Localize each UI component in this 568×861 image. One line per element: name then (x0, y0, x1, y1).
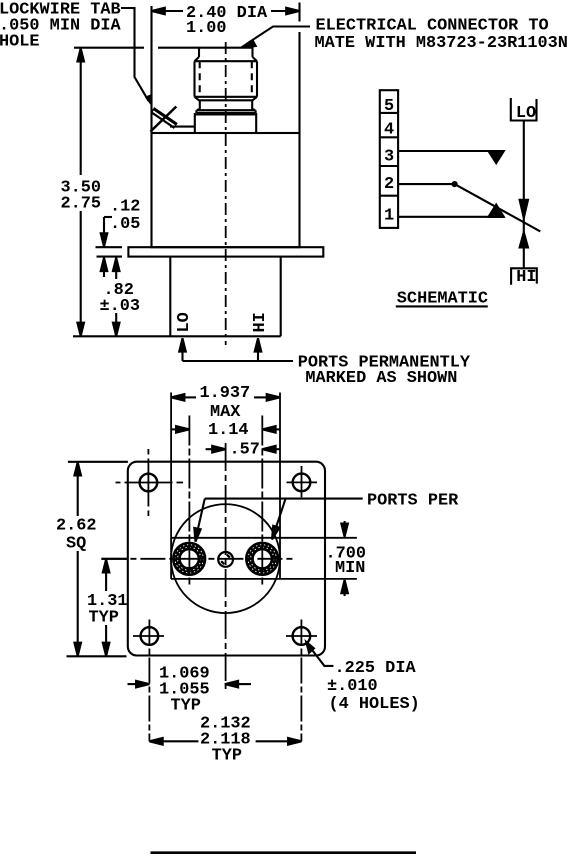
dimension .12 / .05 (flange thickness) (101, 217, 112, 277)
element arrow (down) (520, 200, 528, 218)
svg-text:±.03: ±.03 (100, 297, 141, 316)
bottom edge + extension line (73, 335, 281, 337)
svg-text:LO: LO (175, 312, 194, 332)
flange extension lines (96, 247, 123, 256)
wiper junction dot (452, 181, 458, 187)
dimension 1.069/1.055 TYP (128, 681, 252, 688)
svg-text:2: 2 (384, 175, 394, 194)
element wire LO-HI (523, 121, 525, 269)
svg-text:(4 HOLES): (4 HOLES) (329, 695, 420, 714)
svg-text:TYP: TYP (171, 696, 201, 715)
dimension .57 (port offset) (206, 446, 280, 453)
svg-text:TYP: TYP (212, 747, 242, 766)
svg-text:1: 1 (384, 207, 394, 226)
svg-text:.05: .05 (110, 215, 140, 234)
pin 3 wire (398, 150, 504, 152)
leaders: PORTS PERMANENTLY MARKED AS SHOWN (179, 338, 293, 361)
svg-text:HI: HI (251, 312, 270, 332)
pin 2 wire (398, 183, 455, 185)
svg-text:PORTS PER: PORTS PER (367, 491, 459, 510)
transducer shell circle (bottom view) (171, 504, 280, 613)
svg-text:1.14: 1.14 (208, 421, 249, 440)
svg-text:4: 4 (384, 121, 394, 140)
svg-text:±.010: ±.010 (327, 677, 378, 696)
lower port cylinder (side view) (170, 257, 280, 337)
svg-text:MATE WITH M83723-23R1103N: MATE WITH M83723-23R1103N (315, 34, 568, 53)
electrical connector profile (side view) (195, 48, 258, 133)
leader: PORTS PER (to both ports) (194, 499, 362, 542)
svg-text:HOLE: HOLE (0, 33, 40, 52)
mounting hole top-left (116, 449, 184, 516)
transducer body (side view) (152, 133, 300, 247)
svg-text:ELECTRICAL CONNECTOR TO: ELECTRICAL CONNECTOR TO (316, 17, 549, 36)
connector base (195, 113, 256, 133)
svg-text:MIN: MIN (335, 559, 365, 578)
main shell (195, 61, 258, 97)
svg-text:HI: HI (516, 268, 536, 287)
neck groove (196, 100, 255, 113)
cap (199, 48, 253, 57)
mounting flange (side view) (128, 247, 323, 256)
svg-text:.225 DIA: .225 DIA (335, 659, 417, 678)
pin 3 arrowhead (down) (489, 151, 504, 163)
svg-text:.12: .12 (110, 197, 140, 216)
port LO (bottom view, knurled) (173, 543, 206, 576)
node LO terminal bracket (511, 98, 537, 121)
dimension 1.14 (port spacing) (172, 426, 281, 433)
node HI terminal bracket (511, 268, 537, 285)
mounting hole top-right (287, 466, 318, 497)
extension lines: port centers and shell (171, 393, 280, 586)
boss flat upper edge / .700 extension (171, 537, 357, 539)
lockwire tab with X (hole mark) (151, 107, 195, 132)
horizontal centerline through ports (101, 558, 296, 560)
pin 1 wire (398, 216, 504, 218)
extension line left x=151.5 (150, 6, 152, 133)
lower chamfer (195, 97, 258, 101)
element arrow (up) (520, 232, 528, 247)
svg-text:3: 3 (384, 148, 394, 167)
svg-text:2.75: 2.75 (61, 195, 102, 214)
mounting hole bottom-left (133, 620, 164, 742)
dimension 1.31 TYP (hole offset) (101, 559, 128, 656)
svg-text:SQ: SQ (66, 534, 86, 553)
svg-text:MARKED AS SHOWN: MARKED AS SHOWN (305, 369, 457, 388)
note: ELECTRICAL CONNECTOR TO MATE WITH M83723-23R1103N (315, 17, 568, 54)
hidden thread lines (199, 61, 201, 97)
note: LOCKWIRE TAB .050 MIN DIA HOLE (0, 1, 121, 52)
centerline of connector/body (225, 42, 227, 345)
leader from LOCKWIRE TAB note to tab (121, 8, 153, 108)
dimension 1.937 MAX (shell diameter) (171, 394, 280, 401)
dimension .700 MIN (boss width) (341, 521, 348, 596)
center vent hole (218, 552, 233, 567)
dimension 2.132/2.118 TYP (149, 738, 301, 745)
dimension 2.62 SQ (flange size) (67, 462, 128, 657)
dimension 2.40 DIA / 1.00 (body diameter) (152, 8, 300, 15)
dimension .82 ± .03 (port length) (113, 258, 120, 336)
extension line at connector top (y=47.7) (74, 47, 199, 49)
svg-text:5: 5 (384, 97, 394, 116)
leader to connector cap (242, 27, 311, 48)
svg-text:TYP: TYP (89, 608, 119, 627)
svg-text:MAX: MAX (210, 403, 241, 422)
wiper wire (diagonal) (455, 184, 541, 231)
port HI (bottom view, knurled) (246, 543, 279, 576)
svg-text:1.937: 1.937 (200, 384, 251, 403)
vertical centerline of bottom view (225, 443, 227, 689)
upper chamfer shoulder (195, 57, 258, 61)
mounting hole bottom-right (286, 620, 317, 742)
svg-text:1.00: 1.00 (186, 19, 227, 38)
border segment at sheet bottom (151, 851, 417, 854)
boss flat lower edge / .700 extension (171, 578, 357, 580)
connector pin block (pins 5,4,3,2,1) (380, 90, 398, 228)
dimension 3.50 / 2.75 (overall height) (77, 48, 84, 336)
svg-text:LO: LO (516, 104, 536, 123)
extension line right x=299.5 (298, 3, 300, 134)
pin 1 arrowhead (up) (489, 205, 504, 217)
svg-text:.57: .57 (230, 441, 260, 460)
leader: .225 DIA ±.010 (4 HOLES) (306, 642, 333, 666)
square flange (bottom view) (128, 462, 325, 656)
svg-text:2.62: 2.62 (56, 516, 97, 535)
